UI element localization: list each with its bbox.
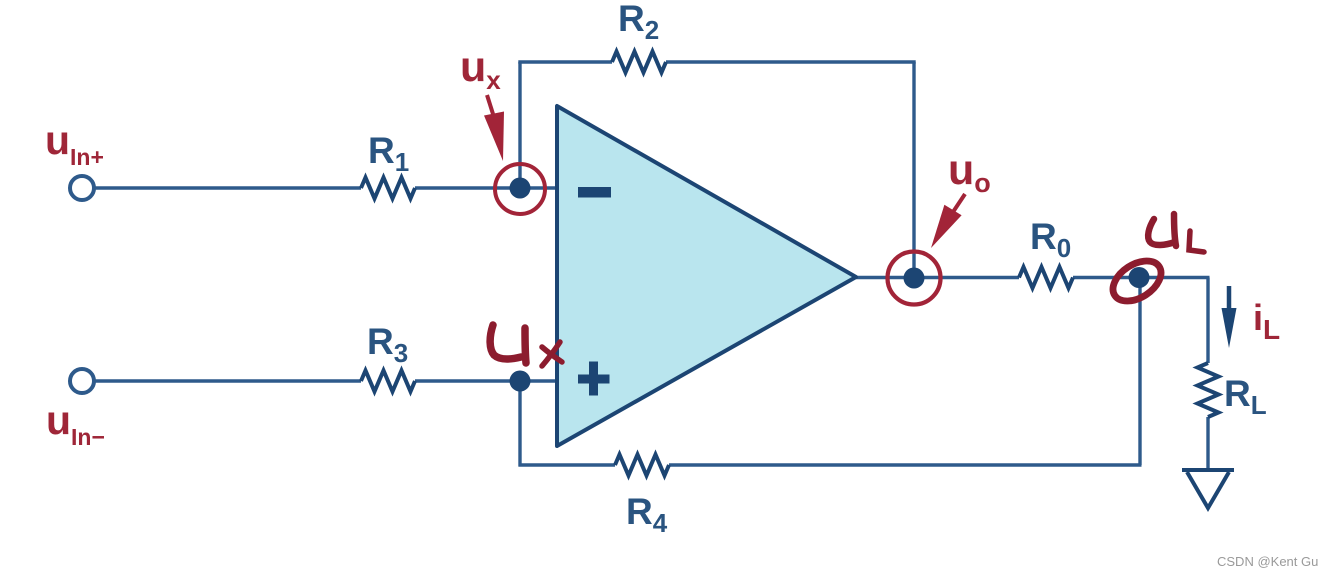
- terminal u_In+: [70, 176, 94, 200]
- resistor R2: [612, 52, 666, 73]
- annotation circle at node u_o: [888, 252, 941, 305]
- wire: R3 to non-inverting input (through node Ux): [415, 379, 556, 382]
- arrow u_x: [487, 95, 493, 114]
- ground: [1182, 470, 1234, 508]
- node U_L (load junction): [1129, 267, 1150, 288]
- arrow i_L: [1227, 286, 1232, 314]
- wire: R2 to right top corner: [666, 60, 916, 63]
- wire: node Ux down to bottom feedback: [518, 381, 521, 467]
- svg-text:CSDN @Kent Gu: CSDN @Kent Gu: [1217, 554, 1318, 569]
- op-amp inverting input minus sign: [578, 187, 611, 198]
- wire: u_In- terminal to R3: [95, 379, 361, 382]
- wire: u_In+ terminal to R1: [95, 186, 361, 189]
- node u_o (output junction): [904, 268, 925, 289]
- arrow u_o: [953, 194, 965, 212]
- op-amp U1: [557, 106, 856, 446]
- handwritten U_L at load node: [1148, 214, 1204, 252]
- wire: bottom feedback left segment to R4: [519, 463, 616, 466]
- resistor R1: [361, 178, 415, 199]
- terminal u_In-: [70, 369, 94, 393]
- node Ux (non-inverting input junction): [510, 371, 531, 392]
- wire: corner down to R_L: [1206, 278, 1209, 364]
- wire: R_L to ground: [1206, 417, 1209, 471]
- wire: top feedback left segment to R2: [518, 60, 612, 63]
- hand-drawn circle annotation at node U_L: [1106, 253, 1168, 310]
- resistor R3: [361, 371, 415, 392]
- wire: R0 to load corner (through node U_L): [1073, 276, 1210, 279]
- annotation circle at node u_x: [495, 164, 545, 214]
- wire: node u_x up to top feedback: [518, 62, 521, 189]
- wire: R1 to inverting input (through node u_x): [415, 186, 556, 189]
- wire: R4 to bottom right corner: [669, 463, 1142, 466]
- resistor R0: [1019, 267, 1073, 288]
- resistor R4: [615, 455, 669, 476]
- resistor RL: [1198, 363, 1219, 417]
- wire: op-amp output to R0 (through node u_o): [854, 276, 1019, 279]
- node u_x (inverting input junction): [510, 178, 531, 199]
- handwritten Ux at non-inverting node: [490, 325, 562, 366]
- wire: top feedback down to output node: [912, 62, 915, 278]
- wire: bottom feedback up to node U_L: [1138, 277, 1141, 465]
- op-amp non-inverting input plus sign: [578, 362, 610, 396]
